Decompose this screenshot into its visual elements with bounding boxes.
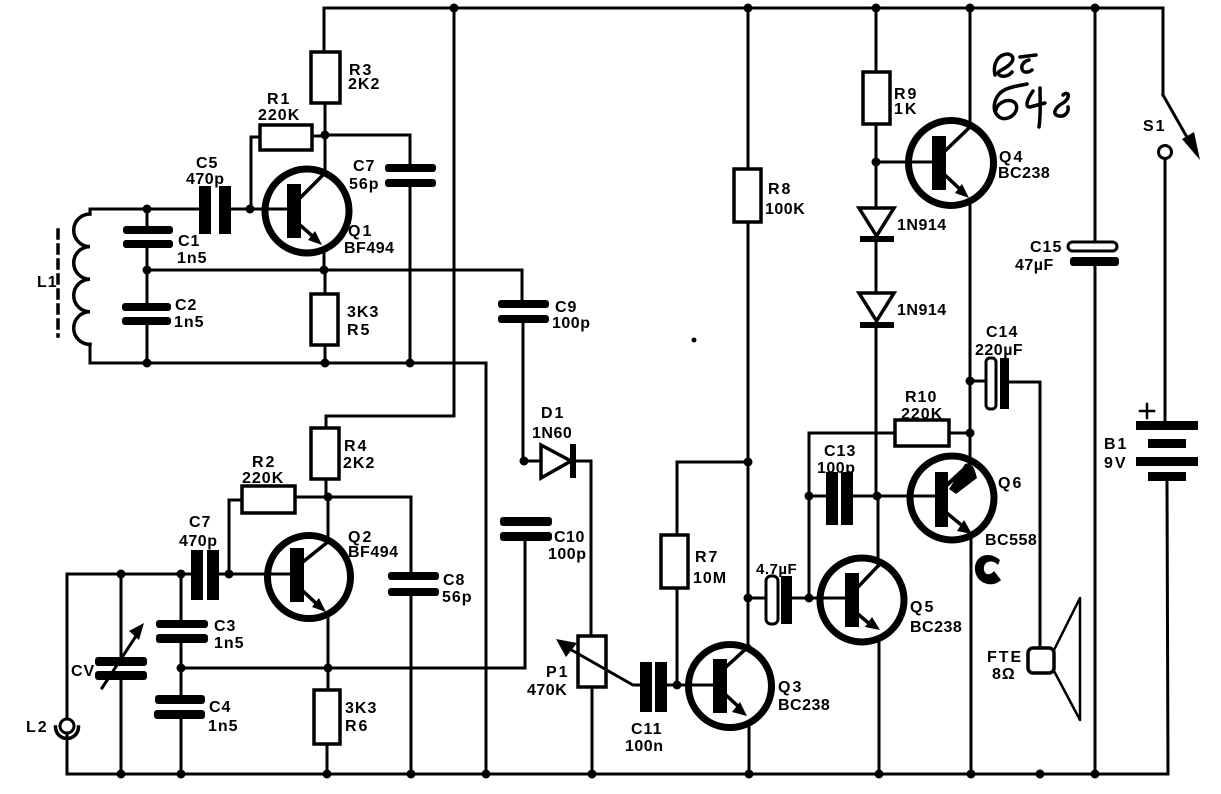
svg-text:BC238: BC238	[910, 619, 962, 636]
node C4/ground bus junction	[177, 770, 186, 779]
wire V+ branch to R4	[326, 8, 454, 428]
node R1/R3/collector junction	[321, 131, 330, 140]
node CV/ground bus junction	[117, 770, 126, 779]
svg-text:P1: P1	[546, 664, 570, 681]
node CV top junction	[117, 570, 126, 579]
node top bus / R9	[872, 4, 881, 13]
svg-text:R1: R1	[267, 91, 291, 108]
resistor R4	[311, 428, 375, 497]
transistor Q3	[689, 645, 831, 775]
transistor Q2	[268, 497, 399, 690]
svg-text:C13: C13	[824, 443, 856, 460]
wire L1 top to Q1 base node	[90, 208, 199, 211]
svg-text:C15: C15	[1030, 239, 1062, 256]
svg-text:Q4: Q4	[999, 149, 1024, 166]
capacitor C15	[1015, 8, 1119, 774]
potentiometer P1	[527, 636, 640, 774]
svg-text:R2: R2	[252, 454, 276, 471]
svg-text:1N914: 1N914	[897, 302, 947, 319]
svg-text:10M: 10M	[693, 570, 727, 587]
svg-text:B1: B1	[1104, 436, 1128, 453]
node R9/Q4 base junction	[872, 158, 881, 167]
node Q6 collector/ground bus junction	[967, 770, 976, 779]
resistor R1	[251, 91, 325, 209]
svg-text:56p: 56p	[349, 176, 380, 193]
resistor R6	[314, 690, 377, 774]
svg-text:47µF: 47µF	[1015, 257, 1054, 274]
svg-text:FTE: FTE	[987, 649, 1023, 666]
svg-text:2K2: 2K2	[343, 455, 375, 472]
svg-text:R6: R6	[345, 718, 369, 735]
diode D1 1N60	[524, 405, 591, 478]
wire Q4 emitter down to Q6	[969, 200, 972, 463]
svg-text:C5: C5	[196, 155, 218, 172]
svg-text:R5: R5	[347, 322, 371, 339]
svg-text:1K: 1K	[894, 101, 918, 118]
svg-text:100p: 100p	[552, 315, 590, 332]
svg-text:3K3: 3K3	[345, 700, 377, 717]
svg-text:220K: 220K	[258, 107, 300, 124]
svg-text:C1: C1	[178, 233, 200, 250]
capacitor C5	[186, 155, 231, 234]
inductor L1	[37, 209, 90, 363]
node R2/Q2 base junction	[225, 570, 234, 579]
node L1/C1 junction	[143, 205, 152, 214]
wire L2 left drop	[66, 574, 69, 774]
node C7/ground-wire junction	[406, 359, 415, 368]
svg-text:100K: 100K	[765, 201, 805, 218]
svg-text:C7: C7	[353, 158, 375, 175]
svg-text:100p: 100p	[817, 460, 855, 477]
svg-text:BF494: BF494	[348, 544, 399, 561]
capacitor C7 56p	[349, 158, 436, 363]
svg-text:56p: 56p	[442, 589, 473, 606]
svg-text:2K2: 2K2	[348, 76, 380, 93]
wire R10 left branch x=809	[808, 433, 811, 598]
svg-text:220µF: 220µF	[975, 342, 1023, 359]
svg-text:BC238: BC238	[998, 165, 1050, 182]
node Q5 base junction	[805, 594, 814, 603]
transistor Q6	[910, 456, 1037, 774]
wire emitter rail y=270	[147, 270, 522, 300]
svg-text:100p: 100p	[548, 546, 586, 563]
node Q2 emitter/AGC junction	[324, 664, 333, 673]
svg-text:L1: L1	[37, 274, 58, 291]
svg-text:C4: C4	[209, 699, 231, 716]
svg-text:R4: R4	[344, 438, 368, 455]
svg-text:C9: C9	[555, 299, 577, 316]
svg-text:C11: C11	[631, 721, 662, 738]
svg-text:BC558: BC558	[985, 532, 1037, 549]
terminal L2	[26, 719, 79, 739]
svg-text:470p: 470p	[186, 171, 224, 188]
node R2/R4/Q2 collector junction	[324, 493, 333, 502]
wire AGC rail y=668	[181, 667, 525, 670]
node diode chain / Q6 base junction	[873, 492, 882, 501]
svg-text:Q5: Q5	[910, 599, 935, 616]
node top bus / R8	[744, 4, 753, 13]
node C14 junction	[966, 377, 975, 386]
diode D3 1N914	[859, 293, 947, 496]
capacitor 4.7uF	[748, 561, 845, 624]
svg-text:C10: C10	[554, 529, 585, 546]
svg-text:Q1: Q1	[348, 223, 373, 240]
node Q1 emitter junction	[320, 266, 329, 275]
capacitor C4	[154, 668, 239, 774]
switch S1	[1143, 8, 1200, 421]
svg-text:Q6: Q6	[998, 475, 1023, 492]
node R7/C11/Q3 base junction	[673, 681, 682, 690]
resistor R3	[311, 8, 380, 135]
resistor R2	[229, 454, 328, 574]
svg-text:BC238: BC238	[778, 697, 830, 714]
wire Q2 base rail y=574	[67, 573, 191, 576]
node top bus / V+ branch x=454	[450, 4, 459, 13]
transistor Q1	[265, 135, 395, 270]
svg-text:100n: 100n	[625, 738, 663, 755]
node ground drop x=486	[482, 770, 491, 779]
resistor R10	[809, 389, 970, 446]
wire ground return y=363	[90, 363, 486, 774]
speaker FTE	[987, 598, 1080, 720]
node Q3 emitter/ground bus junction	[745, 770, 754, 779]
svg-text:9V: 9V	[1104, 455, 1128, 472]
svg-text:220K: 220K	[242, 470, 284, 487]
battery B1	[1104, 404, 1198, 774]
svg-text:R8: R8	[768, 181, 792, 198]
svg-text:1n5: 1n5	[177, 250, 208, 267]
node 4.7uF junction	[744, 594, 753, 603]
diode D2 1N914	[859, 162, 947, 293]
node D1 anode junction	[520, 457, 529, 466]
wire D1 to P1	[590, 461, 593, 636]
wire Q4 collector up	[969, 8, 972, 126]
node C8/ground bus junction	[407, 770, 416, 779]
capacitor C8	[388, 572, 473, 774]
capacitor C10	[500, 517, 586, 668]
pen handwriting Bc 548	[994, 54, 1068, 127]
svg-text:470p: 470p	[179, 533, 217, 550]
capacitor C1	[123, 209, 208, 270]
capacitor C7 470p	[179, 514, 290, 600]
node R5/ground-wire junction	[321, 359, 330, 368]
wire C5 to Q1 base	[231, 208, 288, 211]
resistor R5	[311, 270, 379, 363]
svg-text:C14: C14	[986, 324, 1018, 341]
svg-text:1N914: 1N914	[897, 217, 947, 234]
capacitor C13	[809, 443, 935, 525]
node C3 top junction	[177, 570, 186, 579]
node C1/C2 junction	[143, 266, 152, 275]
svg-text:BF494: BF494	[344, 240, 395, 257]
capacitor C2	[122, 270, 205, 363]
node top bus / C15	[1091, 4, 1100, 13]
svg-text:1n5: 1n5	[208, 718, 239, 735]
wire R3 node to C7	[325, 135, 410, 164]
node C5/R1/Q1 base junction	[246, 205, 255, 214]
dust speck	[692, 338, 697, 343]
node C13 left junction	[805, 492, 814, 501]
node top bus / Q4 collector	[966, 4, 975, 13]
node C2/ground-wire junction	[143, 359, 152, 368]
wire top supply bus	[324, 7, 1163, 10]
svg-text:C7: C7	[189, 514, 211, 531]
svg-text:3K3: 3K3	[347, 304, 379, 321]
node R10 right junction	[966, 429, 975, 438]
svg-text:Q3: Q3	[778, 679, 803, 696]
capacitor C3	[156, 574, 245, 668]
svg-text:470K: 470K	[527, 682, 567, 699]
svg-text:4.7µF: 4.7µF	[756, 561, 797, 578]
svg-text:1N60: 1N60	[532, 425, 572, 442]
resistor R9	[863, 8, 918, 162]
svg-text:C2: C2	[175, 297, 197, 314]
svg-text:R7: R7	[695, 549, 719, 566]
svg-text:C3: C3	[214, 618, 236, 635]
capacitor C14	[970, 324, 1040, 648]
capacitor C9	[498, 299, 590, 461]
node P1/ground bus junction	[588, 770, 597, 779]
wire Q4 base	[876, 161, 932, 164]
svg-text:D1: D1	[541, 405, 565, 422]
capacitor C11	[625, 662, 714, 755]
transistor Q5	[820, 496, 962, 774]
svg-text:CV: CV	[71, 663, 95, 680]
node Q5 emitter/ground bus junction	[875, 770, 884, 779]
pen mark C scribble	[975, 555, 1001, 584]
variable capacitor CV	[71, 574, 147, 774]
node C3/C4/AGC junction	[177, 664, 186, 673]
node C15/ground bus junction	[1091, 770, 1100, 779]
node speaker/ground bus junction	[1036, 770, 1045, 779]
svg-text:8Ω: 8Ω	[992, 666, 1016, 683]
svg-text:R10: R10	[905, 389, 937, 406]
svg-text:220K: 220K	[901, 406, 943, 423]
transistor Q4	[909, 121, 1051, 206]
resistor R8	[734, 8, 805, 648]
wire R7 top to collector rail	[677, 461, 748, 464]
resistor R7	[661, 462, 727, 685]
wire bottom ground bus	[67, 773, 1168, 776]
wire collector node to C8	[328, 497, 411, 572]
node R7/R8 junction	[744, 458, 753, 467]
svg-text:1n5: 1n5	[174, 314, 205, 331]
svg-text:C8: C8	[443, 572, 465, 589]
node R6/ground bus junction	[323, 770, 332, 779]
svg-text:S1: S1	[1143, 118, 1167, 135]
svg-text:1n5: 1n5	[214, 635, 245, 652]
svg-text:L2: L2	[26, 719, 49, 736]
